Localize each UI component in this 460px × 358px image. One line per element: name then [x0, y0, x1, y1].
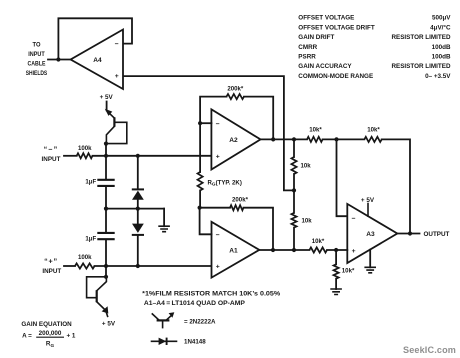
svg-text:INPUT: INPUT	[42, 268, 61, 275]
net label plus input	[42, 257, 61, 276]
capacitor C1 1uF	[85, 178, 114, 186]
wire A3 output	[397, 233, 419, 235]
capacitor C2 1uF	[85, 233, 114, 243]
resistor 200k A1 feedback	[200, 197, 249, 211]
svg-text:A1: A1	[229, 248, 238, 255]
svg-text:+: +	[352, 248, 356, 255]
svg-text:10k: 10k	[301, 163, 312, 170]
svg-text:GAIN EQUATION: GAIN EQUATION	[21, 321, 72, 328]
wire A3 feedback to output	[382, 139, 410, 233]
svg-text:100dB: 100dB	[432, 54, 451, 61]
power +5V Q1	[100, 94, 114, 101]
svg-text:100dB: 100dB	[432, 44, 451, 51]
node clamp rail cap junction	[104, 207, 108, 211]
resistor RG gain set	[198, 123, 242, 208]
svg-text:1μF: 1μF	[85, 236, 96, 243]
wire C2 to plus line	[105, 240, 107, 266]
node A1 feedback tap	[271, 248, 275, 252]
svg-text:INPUT: INPUT	[42, 156, 61, 163]
wire A2 inverting stub	[200, 122, 211, 124]
wire clamp rail	[106, 208, 164, 210]
svg-text:= 2N2222A: = 2N2222A	[184, 318, 216, 325]
power +5V Q2	[102, 320, 116, 327]
node A3 output	[408, 231, 412, 235]
svg-text:+: +	[115, 73, 119, 80]
wire clamp rail to D2	[137, 209, 139, 224]
note film resistor match	[142, 290, 281, 307]
resistor 10k-star A3 plus input	[309, 238, 327, 253]
op-amp U2 A2	[211, 109, 260, 169]
svg-text:10k*: 10k*	[309, 127, 322, 134]
svg-text:10k*: 10k*	[342, 268, 355, 275]
svg-text:1μF: 1μF	[85, 178, 96, 185]
node divider midpoint	[292, 188, 296, 192]
svg-text:OFFSET VOLTAGE: OFFSET VOLTAGE	[298, 15, 354, 22]
ground A3 power	[364, 250, 376, 273]
svg-text:A2: A2	[229, 137, 238, 144]
svg-text:A3: A3	[366, 231, 375, 238]
svg-text:INPUT: INPUT	[28, 51, 45, 58]
wire A4 noninverting input sense line	[124, 76, 294, 190]
op-amp U4 A3	[347, 204, 397, 263]
svg-text:0– +3.5V: 0– +3.5V	[425, 73, 451, 80]
legend transistor 2N2222A	[152, 312, 216, 327]
net label OUTPUT	[424, 231, 450, 238]
svg-text:−: −	[115, 41, 119, 48]
svg-text:200k*: 200k*	[232, 197, 249, 204]
wire minus input line left	[64, 155, 77, 157]
svg-text:100k: 100k	[78, 254, 92, 261]
node clamp rail diode junction	[136, 207, 140, 211]
resistor 10k upper divider	[291, 139, 311, 190]
svg-text:200,000: 200,000	[39, 330, 62, 337]
svg-text:GAIN ACCURACY: GAIN ACCURACY	[298, 63, 352, 70]
resistor 10k-star A3 feedback	[364, 126, 381, 142]
svg-text:+ 5V: + 5V	[100, 94, 114, 101]
svg-text:10k*: 10k*	[367, 126, 380, 133]
node divider bottom	[292, 248, 296, 252]
svg-text:SHIELDS: SHIELDS	[26, 70, 48, 77]
node A2 inverting	[198, 121, 202, 125]
node A3 plus input	[334, 248, 338, 252]
svg-text:TO: TO	[33, 41, 41, 48]
watermark SeekIC.com	[403, 345, 456, 355]
op-amp U1 A4	[71, 30, 123, 90]
op-amp U3 A1	[212, 222, 260, 278]
wire A4 feedback loop	[58, 18, 132, 59]
svg-text:−: −	[352, 216, 356, 223]
wire A4 output to cable shields	[48, 59, 71, 61]
wire A1 inverting stub	[200, 208, 212, 235]
wire A2 feedback up	[200, 97, 226, 124]
wire A2 output	[261, 138, 308, 140]
wire plus input line to A1	[95, 265, 212, 267]
net label TO INPUT CABLE SHIELDS	[26, 41, 48, 77]
resistor 100k minus input	[77, 145, 93, 158]
wire minus node to C1	[105, 156, 107, 179]
svg-text:CMRR: CMRR	[298, 44, 317, 51]
node minus line diode tap	[136, 154, 140, 158]
svg-text:RESISTOR LIMITED: RESISTOR LIMITED	[391, 63, 450, 70]
transistor Q1 2N2222A clamp	[104, 102, 127, 156]
svg-text:10k*: 10k*	[312, 238, 325, 245]
svg-text:+ 1: + 1	[67, 332, 76, 339]
wire minus input line to A2	[93, 155, 212, 157]
node A1 inverting	[198, 206, 202, 210]
diode D1 1N4148 clamp up	[132, 189, 144, 208]
svg-text:“+”: “+”	[44, 257, 58, 266]
wire A3 plus input	[327, 249, 347, 251]
legend diode 1N4148	[152, 338, 207, 346]
svg-text:4μV/°C: 4μV/°C	[430, 23, 451, 31]
note gain equation	[21, 321, 76, 348]
node A2 feedback tap	[271, 137, 275, 141]
svg-text:COMMON-MODE RANGE: COMMON-MODE RANGE	[298, 73, 373, 80]
node minus input junction	[104, 154, 108, 158]
svg-text:+: +	[216, 154, 220, 161]
resistor 100k plus input	[75, 254, 95, 268]
svg-text:RESISTOR LIMITED: RESISTOR LIMITED	[391, 34, 450, 41]
svg-text:A4: A4	[93, 57, 102, 64]
svg-text:CABLE: CABLE	[28, 60, 46, 67]
node A3 inverting feedback	[334, 137, 338, 141]
resistor 10k lower divider	[291, 190, 312, 250]
power +5V A3	[361, 197, 375, 216]
ground clamp rail	[158, 209, 170, 232]
resistor 200k A2 feedback	[227, 86, 245, 100]
svg-text:SeekIC.com: SeekIC.com	[403, 345, 456, 355]
wire A3 inverting input	[337, 139, 348, 216]
svg-text:*1%FILM RESISTOR MATCH 10K’s 0: *1%FILM RESISTOR MATCH 10K’s 0.05%	[142, 290, 281, 297]
svg-text:OFFSET VOLTAGE DRIFT: OFFSET VOLTAGE DRIFT	[298, 24, 375, 31]
svg-text:A =: A =	[22, 332, 32, 339]
svg-text:OUTPUT: OUTPUT	[424, 231, 450, 238]
svg-text:100k: 100k	[78, 145, 92, 152]
svg-text:GAIN DRIFT: GAIN DRIFT	[298, 34, 334, 41]
node plus line diode tap	[136, 264, 140, 268]
wire minus line to D1	[137, 156, 139, 189]
resistor 10k-star first	[307, 127, 323, 142]
svg-text:−: −	[216, 232, 220, 239]
wire clamp rail to C2	[105, 209, 107, 232]
node A4 output junction	[56, 57, 60, 61]
resistor 10k-star to ground	[334, 250, 355, 279]
svg-text:A1–A4 = LT1014 QUAD OP-AMP: A1–A4 = LT1014 QUAD OP-AMP	[144, 300, 245, 307]
wire A1 output	[259, 249, 309, 251]
transistor Q2 2N2222A clamp	[87, 266, 109, 316]
ground A3 plus divider	[330, 279, 342, 295]
wire plus input line left	[64, 265, 75, 267]
svg-text:“–”: “–”	[44, 144, 59, 153]
node plus input junction	[104, 264, 108, 268]
svg-text:PSRR: PSRR	[298, 54, 316, 61]
net label minus input	[42, 144, 61, 163]
wire A1 feedback to output	[244, 208, 274, 250]
wire C1 to clamp rail	[105, 187, 107, 209]
svg-text:200k*: 200k*	[227, 86, 244, 93]
node divider top	[292, 137, 296, 141]
diode D2 1N4148 clamp down	[132, 224, 144, 266]
wire A2 feedback to output	[244, 97, 273, 140]
spec table	[298, 15, 451, 80]
wire to feedback node	[323, 138, 365, 140]
svg-text:10k: 10k	[302, 218, 313, 225]
svg-text:500μV: 500μV	[432, 15, 451, 22]
svg-text:−: −	[216, 121, 220, 128]
svg-text:1N4148: 1N4148	[184, 338, 206, 345]
svg-text:+: +	[216, 263, 220, 270]
svg-text:+ 5V: + 5V	[102, 320, 116, 327]
